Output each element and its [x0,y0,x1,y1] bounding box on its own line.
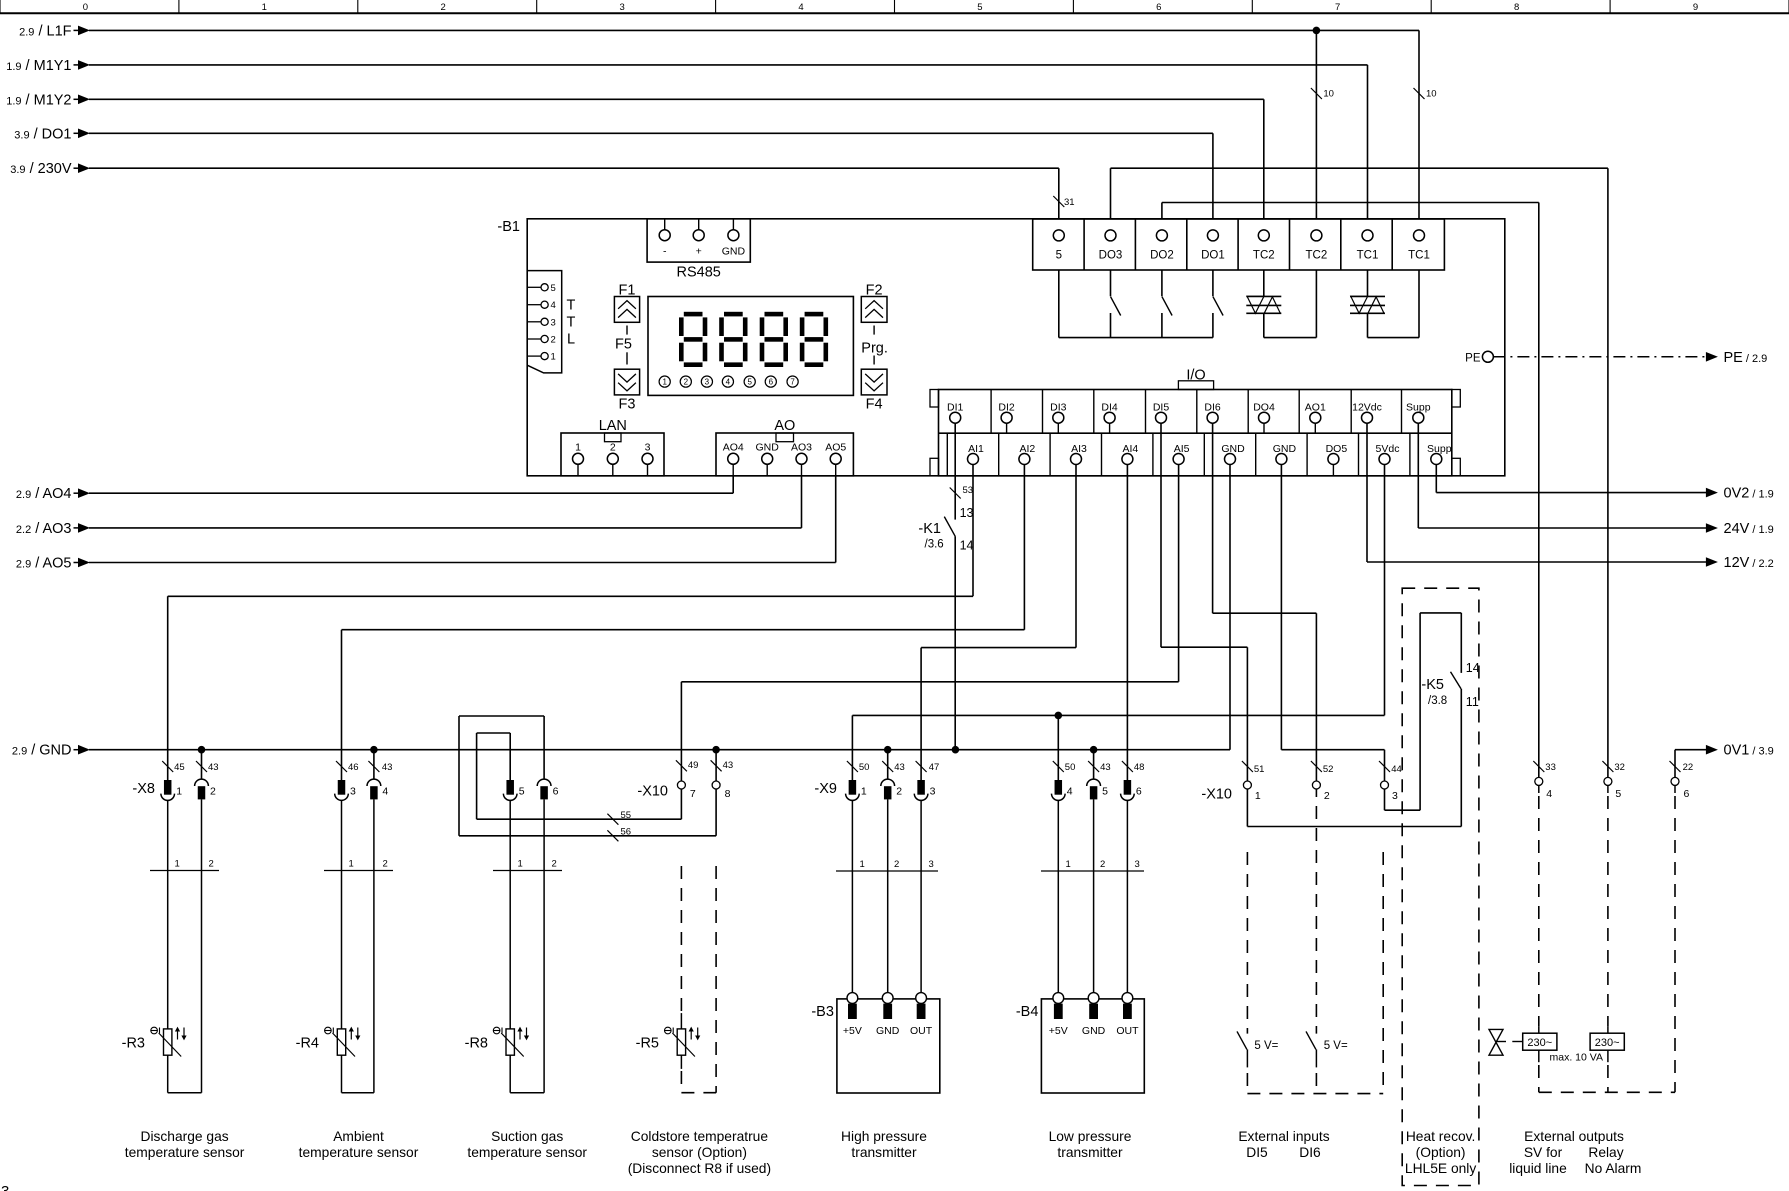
svg-text:temperature sensor: temperature sensor [467,1145,587,1160]
svg-text:1.9 / M1Y1: 1.9 / M1Y1 [6,58,71,74]
svg-text:1.9 / M1Y2: 1.9 / M1Y2 [6,92,71,108]
svg-text:43: 43 [1100,762,1111,773]
svg-text:(Option): (Option) [1416,1145,1466,1160]
relay terminal 5 pin [1053,230,1064,241]
svg-text:2: 2 [551,335,556,346]
wire number 46 [336,761,347,772]
-B3 pin GND [887,799,889,992]
wire AI4 to X9-6 [1126,465,1128,781]
terminal -X8 pin 3 [338,780,346,795]
-B4 pin GND [1093,799,1095,992]
wire X10-3 to K5 loop [1384,789,1386,810]
svg-text:1: 1 [860,859,865,870]
svg-text:AI2: AI2 [1020,443,1036,455]
relay terminal DO3 pin [1105,230,1116,241]
terminal -X9 pin 3 [917,780,925,795]
terminal -X10 pin 8 [712,781,720,789]
svg-text:3.9 / 230V: 3.9 / 230V [10,161,72,177]
svg-text:TC1: TC1 [1408,250,1430,262]
svg-text:3: 3 [1,1183,9,1191]
thermistor -R5 (option) [677,1029,685,1055]
display status icon 3 [701,376,712,387]
svg-text:Coldstore temperatrue: Coldstore temperatrue [631,1129,769,1144]
relay contact DO3 [1110,270,1112,296]
external output pin 4 [1535,777,1543,785]
svg-text:3: 3 [645,442,651,454]
svg-text:AO5: AO5 [825,442,846,454]
svg-text:2: 2 [552,859,557,870]
svg-text:-: - [663,246,667,258]
svg-text:230~: 230~ [1527,1037,1552,1049]
optional wire X10-7 to R5 (dashed) [680,866,682,1013]
wire number 52 [1311,761,1322,772]
wire AI1 to X8-1 [972,465,974,597]
wire DO1 horizontal [89,132,1213,134]
thermistor -R8 [506,1029,514,1055]
svg-text:43: 43 [723,760,734,771]
wire L1F junction at TC2 column [1313,27,1321,35]
svg-text:+: + [696,246,702,258]
cable marker (pins 1,2,3) [1041,870,1144,872]
display digit 8 [724,312,743,317]
svg-text:5: 5 [1056,250,1062,262]
GND bus junction [370,746,378,754]
svg-text:PE: PE [1465,352,1481,364]
thermistor -R4 [337,1029,345,1055]
svg-text:temperature sensor: temperature sensor [125,1145,245,1160]
svg-text:2: 2 [894,859,899,870]
wire number 31 [1053,196,1064,207]
wire number 53 [950,488,961,499]
svg-text:2: 2 [1324,790,1330,802]
wire X8-6 to R8 [543,799,545,1092]
svg-text:-B4: -B4 [1016,1004,1039,1020]
wire TC2 return [1315,270,1317,338]
wire X8-1 to R3 [167,800,169,1029]
wire X8-2 to R3 [201,799,203,1092]
svg-text:5: 5 [1615,788,1621,800]
wire DO3 terminal to external output (relay no alarm) [1110,168,1112,219]
wire drop M1Y1 to TC1 terminal [1367,65,1369,219]
display digit 8 [805,312,824,317]
ruler bar at top [0,12,1789,14]
svg-text:55: 55 [621,810,632,821]
svg-text:transmitter: transmitter [1057,1145,1123,1160]
svg-text:High pressure: High pressure [841,1129,927,1144]
svg-text:2: 2 [610,442,616,454]
RS485 pin GND [732,219,734,230]
wire M1Y2 horizontal [89,98,1264,100]
terminal -X10 pin 1 [1243,781,1251,789]
terminal -X10 pin 7 [677,781,685,789]
external input DI6 switch (5 V=) [1315,806,1317,1034]
svg-text:DO3: DO3 [1099,250,1123,262]
svg-text:7: 7 [690,788,696,800]
wire X8-3 to R4 [341,800,343,1029]
I/O terminal stub [1109,423,1111,433]
wire number 55 [607,814,618,825]
-B4 pin +5V [1057,800,1059,992]
button F3 [614,369,639,395]
wire X8-5 to R8 [509,800,511,1029]
svg-text:8: 8 [1514,2,1519,13]
relay coil 230~ (no alarm) [1590,1033,1624,1050]
wire number 48 [1122,761,1133,772]
svg-text:transmitter: transmitter [851,1145,917,1160]
svg-text:Suction gas: Suction gas [491,1129,563,1144]
svg-text:230~: 230~ [1595,1037,1620,1049]
svg-text:5: 5 [519,786,525,798]
svg-text:6: 6 [553,786,559,798]
svg-text:DO5: DO5 [1326,443,1348,455]
terminal -X9 pin 6 [1124,780,1132,795]
terminal -X9 pin 4 [1055,780,1063,795]
wire common bus DO1..DO3 to 5 [1059,337,1213,339]
svg-text:24V / 1.9: 24V / 1.9 [1724,521,1774,537]
svg-text:0V2 / 1.9: 0V2 / 1.9 [1724,486,1774,502]
wire DI6 to X10-2 [1212,423,1214,613]
svg-text:13: 13 [960,506,974,520]
wire number 32 [1602,761,1613,772]
svg-text:-X8: -X8 [132,781,155,797]
cable marker (pins 1,2,3) [836,870,938,872]
svg-text:Low pressure: Low pressure [1049,1129,1132,1144]
heat recovery option box (dashed) [1402,588,1479,1185]
wire AO3 [89,527,802,529]
svg-text:max. 10 VA: max. 10 VA [1550,1052,1604,1064]
I/O terminal stub [1057,423,1059,433]
wire M1Y1 horizontal [89,64,1368,66]
svg-text:22: 22 [1683,762,1694,773]
svg-text:2: 2 [684,378,689,387]
display status icon 7 [787,376,798,387]
svg-text:4: 4 [1546,788,1552,800]
relay contact -K5 /3.8 loop [1419,613,1421,810]
svg-text:2.9 / L1F: 2.9 / L1F [19,23,72,39]
pressure transmitter -B3 [837,999,940,1093]
svg-text:temperature sensor: temperature sensor [299,1145,419,1160]
svg-text:45: 45 [174,762,185,773]
wire number 50 (X9-4) [1053,761,1064,772]
svg-text:AI1: AI1 [968,443,984,455]
svg-text:46: 46 [348,762,359,773]
svg-text:-K1: -K1 [918,521,941,537]
svg-text:GND: GND [722,246,746,258]
RS485 connector of -B1 [647,219,750,262]
svg-text:SV for: SV for [1524,1145,1563,1160]
wire drop DO1 to terminal [1212,133,1214,219]
svg-text:DI6: DI6 [1299,1145,1321,1160]
svg-text:5 V=: 5 V= [1324,1040,1348,1052]
wire 0V1 to arrow [1675,749,1707,751]
terminal -X8 pin 4 [367,779,381,786]
svg-text:-X9: -X9 [814,781,837,797]
wire X9-5 GND [1093,750,1095,780]
external output pin 6 (0V1) [1671,777,1679,785]
svg-text:5: 5 [551,283,556,294]
svg-text:2.9 / GND: 2.9 / GND [12,743,72,759]
svg-text:5: 5 [747,378,752,387]
svg-text:3: 3 [619,2,624,13]
TTL pin 4 [527,304,541,306]
display status icon 1 [659,376,670,387]
svg-text:LAN: LAN [599,418,627,434]
I/O terminal stub [1263,423,1265,433]
display status icon 6 [765,376,776,387]
svg-text:5: 5 [977,2,982,13]
wire number 33 [1533,761,1544,772]
wire number 10 (TC1 drop) [1414,88,1425,99]
wire number 43 (X8-2) [196,761,207,772]
svg-text:1: 1 [1066,859,1071,870]
button F2 [861,297,887,323]
relay contact DO1 [1212,270,1214,296]
svg-text:1: 1 [551,352,556,363]
svg-text:50: 50 [859,762,870,773]
svg-text:7: 7 [790,378,795,387]
wire number 51 [1242,761,1253,772]
wire drop M1Y2 to TC2 terminal [1263,99,1265,219]
wire number 50 (X9-1) [847,761,858,772]
wire terminal 5 common drop [1058,270,1060,338]
svg-text:Ambient: Ambient [333,1129,384,1144]
svg-text:External outputs: External outputs [1524,1129,1624,1144]
svg-text:External inputs: External inputs [1238,1129,1329,1144]
svg-text:liquid line: liquid line [1509,1161,1567,1176]
relay terminal TC2 pin [1258,230,1269,241]
svg-text:5: 5 [1102,786,1108,798]
svg-text:2.9 / AO4: 2.9 / AO4 [16,486,72,502]
svg-text:1: 1 [518,859,523,870]
svg-text:GND: GND [1082,1025,1106,1037]
svg-text:4: 4 [1067,786,1073,798]
svg-text:6: 6 [1156,2,1161,13]
display status icon 4 [722,376,733,387]
LAN connector of -B1 [561,433,664,476]
wire DI5 to X10-1 [1160,423,1162,647]
pressure transmitter -B4 [1041,999,1144,1093]
terminal -X8 pin 2 [195,779,209,786]
svg-text:AO4: AO4 [723,442,744,454]
wire X9-2 GND [887,750,889,780]
relay terminal DO2 pin [1156,230,1167,241]
external inputs box (dashed) [1382,852,1384,1094]
svg-text:-X10: -X10 [637,784,668,800]
display status icon 2 [680,376,691,387]
wire AI2 to X8-3 [1023,465,1025,630]
wire number 43 (X9-5) [1088,761,1099,772]
svg-text:GND: GND [1221,443,1245,455]
svg-text:TC2: TC2 [1306,250,1328,262]
svg-text:Prg.: Prg. [861,341,888,357]
button F1 [614,297,639,323]
cable marker (pins 1,2) [150,870,219,872]
wire X8-4 GND [373,750,375,780]
svg-text:RS485: RS485 [677,265,721,281]
svg-text:10: 10 [1323,89,1334,100]
GND bus junction [952,746,960,754]
svg-text:TC2: TC2 [1253,250,1275,262]
wire 12V from 12Vdc [1366,423,1368,562]
relay contact DO2 [1161,270,1163,296]
cable marker (pins 1,2) [324,870,393,872]
wire AO5 [89,562,836,564]
display digit 8 [684,312,703,317]
svg-text:14: 14 [960,539,974,553]
thermistor -R3 [164,1029,172,1055]
valve symbol [1489,1029,1503,1055]
svg-text:50: 50 [1065,762,1076,773]
svg-text:-R3: -R3 [122,1036,145,1052]
GND bus junction [198,746,206,754]
wire number 56 [607,830,618,841]
relay terminal TC1 pin [1362,230,1373,241]
svg-text:1: 1 [262,2,267,13]
svg-text:1: 1 [175,859,180,870]
RS485 pin - [664,219,666,230]
svg-text:-B3: -B3 [811,1004,834,1020]
wire 24V from Supp (top) [1417,423,1419,528]
svg-text:14: 14 [1466,661,1480,675]
wire AO4 [89,492,733,494]
svg-text:+5V: +5V [843,1025,862,1037]
wire X8-4 to R4 [373,799,375,1092]
svg-text:OUT: OUT [1116,1025,1139,1037]
label Prg. [873,326,875,335]
label F5 [626,326,628,335]
-B3 pin +5V [851,800,853,992]
junction 5V to B4 [1055,712,1063,720]
wire number 44 [1379,761,1390,772]
svg-text:Discharge gas: Discharge gas [140,1129,228,1144]
terminal -X10 pin 3 [1381,781,1389,789]
I/O terminal block of -B1 [939,390,1452,476]
svg-text:47: 47 [929,762,940,773]
-B3 pin OUT [920,800,922,992]
svg-text:GND: GND [756,442,780,454]
solenoid valve coil 230~ (SV) [1523,1033,1557,1050]
svg-text:3: 3 [350,786,356,798]
svg-text:6: 6 [769,378,774,387]
svg-text:53: 53 [963,485,974,496]
svg-text:OUT: OUT [910,1025,933,1037]
terminal -X10 pin 2 [1312,781,1320,789]
svg-text:7: 7 [1335,2,1340,13]
svg-text:DO1: DO1 [1201,250,1225,262]
wire number 47 [916,761,927,772]
terminal -X9 pin 1 [849,780,857,795]
svg-text:-X10: -X10 [1201,787,1232,803]
svg-text:49: 49 [688,760,699,771]
display digit 8 [765,312,784,317]
wire number 10 (TC2 drop) [1311,88,1322,99]
svg-text:F2: F2 [866,283,883,299]
7-segment display of -B1 [648,297,853,396]
terminal -X8 pin 1 [164,780,172,795]
wire TC1 return [1418,270,1420,338]
terminal -X8 pin 5 [506,780,514,795]
TTL pin 2 [527,338,541,340]
button F4 [861,369,887,395]
svg-text:-K5: -K5 [1421,677,1444,693]
svg-text:AI4: AI4 [1123,443,1139,455]
wire number 49 [676,760,687,771]
svg-text:Relay: Relay [1588,1145,1623,1160]
svg-text:2: 2 [1100,859,1105,870]
svg-text:1: 1 [575,442,581,454]
svg-text:2.2 / AO3: 2.2 / AO3 [16,521,72,537]
svg-text:4: 4 [551,300,556,311]
GND bus junction [712,746,720,754]
wire number 45 [162,761,173,772]
svg-text:4: 4 [798,2,803,13]
wire X10-1 to K5 contact loop [1246,789,1248,827]
TTL pin 1 [527,355,541,357]
I/O terminal stub [1314,423,1316,433]
svg-text:6: 6 [1684,788,1690,800]
svg-text:0V1 / 3.9: 0V1 / 3.9 [1724,743,1774,759]
svg-text:3: 3 [551,317,556,328]
terminal -X8 pin 6 [537,779,551,786]
RS485 pin + [698,219,700,230]
svg-text:52: 52 [1323,764,1334,775]
wire number 22 [1670,761,1681,772]
svg-text:3: 3 [1135,859,1140,870]
svg-text:8: 8 [725,788,731,800]
external input DI5 switch (5 V=) [1246,852,1248,1034]
wire 230V horizontal [89,167,1059,169]
wire L1F horizontal [89,29,1419,31]
wire PE (dash-dot) [1493,356,1706,358]
wire X10-2 stub [1315,789,1317,797]
svg-text:43: 43 [382,762,393,773]
svg-text:11: 11 [1466,695,1479,709]
wire DI1 down [954,423,956,519]
wire 55: X10-7 to X8-5 [680,789,682,819]
svg-text:12V / 2.2: 12V / 2.2 [1724,555,1774,571]
svg-text:9: 9 [1693,2,1698,13]
svg-text:F1: F1 [619,283,636,299]
wire X10-8 to GND bus [715,750,717,781]
wire number 43 (X10-8) [711,760,722,771]
svg-text:3: 3 [705,378,710,387]
svg-text:3: 3 [929,859,934,870]
terminal -X9 pin 5 [1087,779,1101,786]
svg-text:No Alarm: No Alarm [1585,1161,1642,1176]
svg-text:/3.6: /3.6 [925,539,944,551]
svg-text:F4: F4 [866,397,883,413]
controller -B1 outline [527,219,1505,476]
svg-text:1: 1 [861,786,867,798]
svg-text:DO2: DO2 [1150,250,1174,262]
svg-text:4: 4 [382,786,388,798]
svg-text:33: 33 [1545,762,1556,773]
svg-text:+5V: +5V [1049,1025,1068,1037]
-B4 pin OUT [1126,800,1128,992]
svg-text:3.9 / DO1: 3.9 / DO1 [14,126,71,142]
svg-text:32: 32 [1614,762,1625,773]
wire AI3 to X9-3 [1075,465,1077,648]
svg-text:0: 0 [83,2,88,13]
wire DO2 terminal to external output (SV liquid line) [1161,203,1163,220]
svg-text:GND: GND [876,1025,900,1037]
wire 56: X10-8 to X8-6 [715,789,717,836]
TTL pin 3 [527,321,541,323]
svg-text:T: T [567,298,576,314]
relay terminal TC1 pin [1414,230,1425,241]
svg-text:TC1: TC1 [1357,250,1379,262]
svg-text:5 V=: 5 V= [1254,1040,1278,1052]
